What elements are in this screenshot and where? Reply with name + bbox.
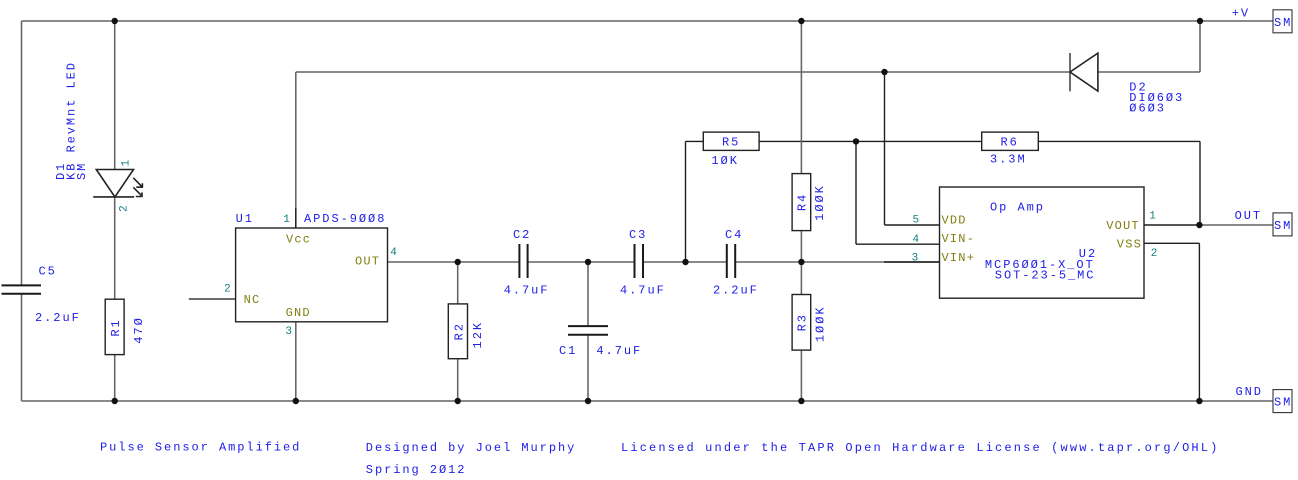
svg-text:C2: C2 [513,228,531,242]
svg-text:2.2uF: 2.2uF [35,311,81,325]
svg-text:R4: R4 [795,193,809,211]
svg-text:3: 3 [912,252,920,264]
svg-text:Ø6Ø3: Ø6Ø3 [1129,102,1166,116]
svg-text:SOT-23-5_MC: SOT-23-5_MC [995,268,1096,282]
svg-text:R2: R2 [452,322,466,340]
svg-text:GND: GND [286,306,311,320]
svg-text:R5: R5 [722,136,740,150]
svg-text:3: 3 [285,326,293,338]
svg-text:U1: U1 [236,212,254,226]
svg-text:3.3M: 3.3M [990,152,1027,166]
svg-text:VIN-: VIN- [942,232,976,246]
svg-text:4.7uF: 4.7uF [504,284,550,298]
svg-text:5: 5 [912,215,920,227]
svg-text:R3: R3 [795,313,809,331]
svg-text:Pulse Sensor Amplified: Pulse Sensor Amplified [100,440,301,454]
svg-text:APDS-9ØØ8: APDS-9ØØ8 [304,212,386,226]
svg-text:1: 1 [121,158,133,166]
svg-text:1ØØK: 1ØØK [813,184,827,221]
svg-text:1ØØK: 1ØØK [813,305,827,342]
svg-text:4: 4 [390,247,398,259]
svg-text:OUT: OUT [355,255,380,269]
svg-text:SM: SM [1274,219,1292,233]
svg-text:+V: +V [1232,7,1250,21]
svg-text:NC: NC [244,293,261,307]
svg-text:1ØK: 1ØK [711,154,738,168]
svg-text:2.2uF: 2.2uF [713,284,759,298]
svg-text:SM: SM [75,162,89,180]
svg-text:4: 4 [912,234,920,246]
svg-text:C3: C3 [629,228,647,242]
svg-text:1: 1 [283,214,291,226]
svg-text:Spring 2Ø12: Spring 2Ø12 [366,463,467,477]
svg-text:Op Amp: Op Amp [990,200,1045,214]
svg-text:Licensed under the TAPR Open H: Licensed under the TAPR Open Hardware Li… [621,441,1219,455]
svg-text:VDD: VDD [942,214,967,228]
svg-text:C5: C5 [39,264,57,278]
svg-text:12K: 12K [471,321,485,348]
svg-text:4.7uF: 4.7uF [596,344,642,358]
svg-text:VSS: VSS [1117,238,1142,252]
svg-text:1: 1 [1149,211,1157,223]
svg-text:2: 2 [119,204,131,212]
svg-text:OUT: OUT [1235,209,1262,223]
svg-text:C1: C1 [559,344,577,358]
svg-text:GND: GND [1236,385,1263,399]
svg-text:2: 2 [1151,248,1159,260]
svg-text:4.7uF: 4.7uF [620,284,666,298]
svg-text:R6: R6 [1001,136,1019,150]
svg-text:47Ø: 47Ø [132,316,146,343]
svg-text:Designed by Joel Murphy: Designed by Joel Murphy [366,441,576,455]
svg-text:SM: SM [1274,16,1292,30]
svg-text:C4: C4 [725,228,743,242]
svg-text:Vcc: Vcc [286,232,311,246]
svg-text:VIN+: VIN+ [942,251,976,265]
svg-text:R1: R1 [109,318,123,336]
svg-text:SM: SM [1274,396,1292,410]
svg-text:VOUT: VOUT [1106,219,1140,233]
svg-text:2: 2 [224,284,232,296]
